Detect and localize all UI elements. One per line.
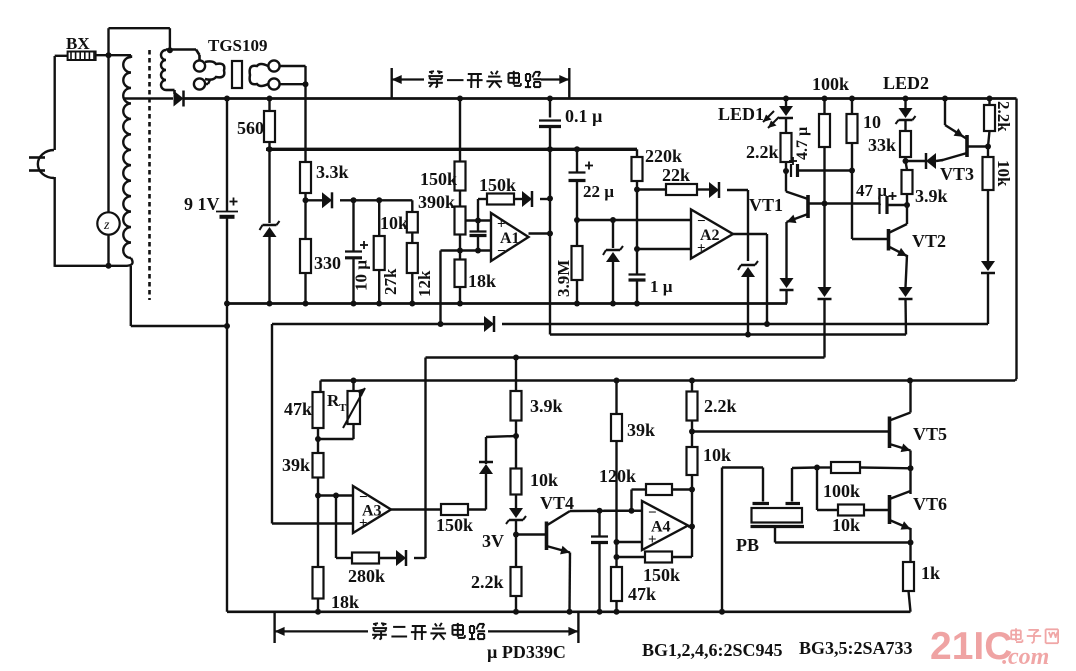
resistor 39k A3 (313, 453, 324, 478)
svg-text:LED2: LED2 (883, 73, 929, 93)
resistor 10 (847, 114, 858, 143)
TGS109 electrode body (250, 60, 280, 89)
node 120k right (689, 487, 695, 493)
wire coil bottom curl (125, 258, 133, 266)
wire overhead top (109, 27, 170, 29)
svg-text:µ PD339C: µ PD339C (487, 642, 566, 662)
capacitor 1u (629, 275, 646, 281)
bracket first switch left arrow (392, 78, 424, 80)
battery 9.1V (216, 212, 238, 217)
wire switch line H4 right (502, 323, 988, 325)
node 560 top (267, 96, 273, 102)
wire transformer return vertical (130, 266, 132, 326)
svg-text:220k: 220k (645, 146, 682, 166)
node VT6 emitter/PB (908, 540, 914, 546)
diode A1 feedback (522, 191, 532, 207)
wire VT1 base to 47u (878, 204, 881, 206)
node 12k bottom (409, 301, 415, 307)
svg-text:150k: 150k (643, 565, 680, 585)
thermistor RT (343, 388, 365, 428)
wire 220k node down (636, 190, 638, 250)
wire A2 minus input (577, 219, 691, 221)
wire 2.2k btm bottom (515, 596, 517, 612)
bracket first switch left tick (391, 68, 393, 99)
diode after 3.3k (322, 192, 332, 208)
wire sensor output down (304, 84, 306, 149)
svg-text:47 µ: 47 µ (856, 181, 887, 200)
wire A3 plus input (272, 522, 353, 524)
node A4 output (689, 524, 695, 530)
bracket second switch left tick (273, 612, 275, 643)
wire 47k A4 bottom (615, 601, 617, 612)
zener diode mid (603, 246, 623, 262)
wire 47u left lead (878, 202, 881, 204)
resistor 150k (455, 162, 466, 191)
wire 10u bottom lead (352, 258, 354, 304)
wire VT4 emitter lead (568, 553, 571, 612)
resistor 2.2k btm (511, 567, 522, 596)
wire 120k vertical (630, 490, 632, 511)
node A4 plus (614, 539, 620, 545)
wire cap A4 bottom lead (598, 543, 600, 612)
transformer core (dashed) (148, 50, 151, 300)
node 150k chain top (457, 96, 463, 102)
svg-text:VT3: VT3 (940, 164, 974, 184)
capacitor 47u (880, 196, 888, 214)
wire 22k left lead (637, 188, 666, 190)
wire LED2 top lead (904, 99, 906, 109)
wire fuse left lead (55, 55, 68, 57)
wire 10k-12k link (411, 233, 413, 244)
resistor 18k (455, 260, 466, 288)
svg-text:A1: A1 (500, 230, 520, 247)
wire 10k fb right (864, 509, 890, 511)
wire A1 minus input (441, 249, 492, 251)
op-amp A4 (642, 501, 688, 550)
svg-text:2.2k: 2.2k (704, 396, 737, 416)
wire diode to corner (727, 189, 748, 191)
node A1 plus / feedback tap (475, 218, 481, 224)
resistor 3.9M (572, 246, 583, 280)
svg-text:390k: 390k (418, 192, 455, 212)
resistor 330 (300, 239, 311, 273)
wire 2.2k to node (785, 162, 787, 171)
node 0.1u on H2 (547, 146, 553, 152)
wire 3.3k top lead (304, 149, 306, 162)
node 33k bottom (903, 158, 909, 164)
resistor 3.9k VT2 (902, 170, 913, 194)
node 22u top (574, 146, 580, 152)
node 10u cap top (351, 197, 357, 203)
wire x616 long (615, 441, 617, 567)
resistor 27k (374, 236, 385, 270)
op-amp A2 (691, 210, 733, 259)
resistor 120k (646, 484, 672, 495)
svg-text:21IC: 21IC (930, 625, 1012, 668)
svg-text:10k: 10k (703, 445, 731, 465)
node PB on bottom rail (719, 609, 725, 615)
wire x748 vertical (747, 190, 749, 261)
node lamp bottom (106, 263, 112, 269)
resistor 10k right (983, 157, 994, 190)
svg-text:2.2k: 2.2k (994, 101, 1013, 132)
diode to VT3 (926, 153, 936, 169)
wire zener column top (268, 149, 270, 223)
node 120k tap (629, 508, 635, 514)
wire PB left pin horiz (722, 466, 763, 468)
node A2 out on H4 (764, 321, 770, 327)
battery plus sign (230, 198, 238, 206)
bracket second switch left arrow (275, 630, 368, 632)
diode under VT2 (899, 287, 913, 299)
svg-text:T: T (339, 402, 347, 414)
wire LED1-2.2k link (785, 118, 787, 133)
wire x692 fb vertical (691, 527, 693, 558)
wire x486 to x516 (486, 436, 516, 437)
wire right border lower (1015, 379, 1017, 381)
capacitor at A1 input (470, 232, 487, 236)
piezo buzzer PB bottom plate (751, 525, 805, 528)
wire VT2 diode to H5 (904, 299, 907, 335)
svg-text:47k: 47k (284, 399, 312, 419)
node zener2 top (610, 217, 616, 223)
wire 100k top lead (823, 99, 825, 115)
wire A4 minus input (604, 510, 642, 512)
node battery bottom (224, 301, 230, 307)
transistor VT2 (889, 224, 908, 256)
wire lamp top lead (107, 55, 109, 212)
resistor 3.3k (300, 162, 311, 193)
resistor 10k (407, 212, 418, 233)
wire rail from winding (123, 97, 173, 99)
wire x748 lower (747, 277, 749, 335)
node VT5 collector top (907, 378, 913, 384)
wire A3 output (391, 508, 441, 510)
wire VT5 emitter lead (909, 451, 911, 469)
resistor 560 (264, 111, 275, 142)
wire sensor electrode vertical (304, 66, 306, 84)
wire plug to fuse (left vertical) (54, 56, 56, 150)
wire 27k bottom lead (378, 270, 380, 304)
node A1 minus / cap (475, 248, 481, 254)
resistor 33k (900, 131, 911, 157)
node 47u right (904, 202, 910, 208)
wire overhead up (107, 28, 109, 55)
diode after 22k (709, 182, 719, 198)
svg-text:22k: 22k (662, 165, 690, 185)
wire 2.2k to node (691, 421, 693, 432)
wire A4 out stub (688, 525, 692, 527)
wire battery top lead (226, 99, 228, 212)
piezo buzzer PB electrodes (753, 502, 801, 505)
label 第一开关电路 (first switch circuit) (428, 71, 541, 88)
plus of 4.7u (789, 157, 797, 165)
wire 33k node to diode (906, 160, 926, 162)
node 18k A3 bottom (315, 609, 321, 615)
node 10u bottom (351, 301, 357, 307)
wire bottom section top rail H7 (321, 379, 1016, 382)
resistor 2.2k A4 (687, 392, 698, 421)
wire 47k top corner (319, 381, 321, 393)
svg-text:10: 10 (863, 112, 881, 132)
wire 120k corner (632, 488, 647, 490)
node x748 on H5 (745, 332, 751, 338)
node feedback tap A3 (333, 493, 339, 499)
svg-text:2.2k: 2.2k (471, 572, 504, 592)
wire 10u top lead (352, 200, 354, 250)
wire sensor rail (second, thick) (266, 148, 637, 151)
node A2 minus (574, 217, 580, 223)
wire A3 fb vertical (335, 496, 337, 559)
svg-text:BG3,5:2SA733: BG3,5:2SA733 (799, 638, 913, 658)
wire zener to node (515, 520, 517, 535)
op-amp A1 (491, 213, 529, 261)
wire VT2 emitter lead (906, 255, 908, 287)
wire 12k bottom lead (411, 273, 413, 304)
wire 3.9M top lead (576, 220, 578, 246)
resistor 18k A3 (313, 567, 324, 599)
piezo buzzer PB crystal (752, 508, 803, 523)
svg-text:VT1: VT1 (749, 195, 783, 215)
svg-text:18k: 18k (468, 271, 496, 291)
svg-text:1 µ: 1 µ (650, 277, 673, 296)
node col x227 / transformer return (224, 323, 230, 329)
wire RT top lead (352, 381, 354, 392)
node cap A4 bottom (597, 609, 603, 615)
fuse BX (68, 52, 96, 61)
wire 330 top lead (304, 200, 306, 239)
node A3 minus (315, 493, 321, 499)
wire 18k A3 bottom (317, 599, 319, 612)
wire 330 bottom lead (304, 273, 306, 304)
resistor 10k fb (838, 505, 864, 516)
resistor 12k (407, 243, 418, 273)
wire fuse to junction (96, 54, 131, 56)
node VT4 base (513, 532, 519, 538)
node 39k A4 top (614, 378, 620, 384)
wire A2 output (733, 233, 767, 235)
diode A3 feedback (396, 550, 406, 566)
wire cap bottom lead (477, 236, 479, 251)
plus of 47u (889, 192, 897, 200)
transformer primary winding (123, 57, 131, 258)
node LED2 top (903, 96, 909, 102)
node 18k bottom (457, 301, 463, 307)
wire A2 plus input (637, 248, 691, 250)
wire 10k right top (987, 147, 989, 158)
svg-text:0.1 µ: 0.1 µ (565, 106, 603, 126)
wire A2 out vertical (766, 234, 768, 324)
node 3.9M bottom (574, 301, 580, 307)
resistor 2.2k right (984, 105, 995, 131)
wire 150k-390k link (459, 191, 461, 207)
node 4.7u right (849, 168, 855, 174)
wire x817 vertical (816, 468, 818, 511)
resistor 22k (666, 184, 697, 195)
svg-text:VT2: VT2 (912, 231, 946, 251)
node zener bottom (267, 301, 273, 307)
wire x486 vertical lower (485, 474, 487, 510)
capacitor at A4 (591, 537, 608, 543)
wire VT4 base wire (516, 533, 547, 535)
TGS109 heater body (166, 50, 224, 95)
svg-text:9 1V: 9 1V (184, 194, 220, 214)
wire PB right pin up (791, 468, 793, 502)
svg-text:280k: 280k (348, 566, 385, 586)
wire 10k/12k top lead (411, 200, 413, 212)
node LED1 top (783, 96, 789, 102)
wire x486 vertical upper (485, 437, 487, 464)
wire 4.7u to x852 (798, 169, 853, 171)
wire VT1 emitter lead (785, 222, 787, 278)
wire 10 bottom lead (851, 143, 853, 171)
svg-text:150k: 150k (479, 175, 516, 195)
svg-text:27k: 27k (381, 268, 400, 295)
wire 27k top lead (378, 200, 380, 236)
wire 3.9k btm bottom lead (515, 421, 517, 437)
wire 3.3k bottom lead (304, 193, 306, 200)
wire 18k A3 top (317, 496, 319, 568)
wire feedback corner (478, 198, 487, 200)
wire feedback vertical upper (477, 199, 479, 221)
svg-text:TGS109: TGS109 (208, 36, 268, 55)
wire x516 to 10k (515, 436, 517, 469)
wire sensor top electrode (280, 65, 306, 67)
node VT5 drive (689, 429, 695, 435)
resistor 280k (352, 553, 379, 564)
wire coil top lead (130, 55, 132, 58)
wire PB bottom to VT6 (775, 541, 911, 543)
LED1 emission arrows (763, 111, 779, 128)
wire VT3 emitter lead (944, 99, 946, 126)
wire PB left vertical (721, 468, 723, 612)
node 27k bottom (376, 301, 382, 307)
node 100k top (822, 96, 828, 102)
wire 560 top lead (268, 99, 270, 112)
svg-text:10k: 10k (530, 470, 558, 490)
svg-text:12k: 12k (415, 270, 434, 297)
resistor 100k (819, 114, 830, 147)
svg-text:VT5: VT5 (913, 424, 947, 444)
svg-text:BG1,2,4,6:2SC945: BG1,2,4,6:2SC945 (642, 640, 783, 660)
wire PB right pin horiz (792, 466, 817, 469)
wire 150k A3 to corner (468, 508, 486, 510)
wire zener2 bottom lead (612, 262, 614, 304)
transistor VT3 (941, 125, 967, 161)
wire emitter chain (909, 468, 911, 494)
resistor 2.2k VT1 (781, 133, 792, 162)
wire 2.2k A4 top lead (691, 381, 693, 392)
wire VT6 emitter lead (909, 528, 911, 543)
svg-text:150k: 150k (420, 169, 457, 189)
wire 10k A4 top (691, 432, 693, 448)
node 0.1u top (547, 96, 553, 102)
node VT3 base (985, 144, 991, 150)
wire 33k node down (906, 161, 908, 170)
capacitor 4.7u (791, 164, 798, 177)
wire VT1 base (808, 202, 880, 204)
wire lamp bottom lead (107, 235, 109, 266)
wire 1k top lead (909, 543, 911, 563)
bracket first switch right arrow (541, 78, 569, 80)
wire 3.9M bottom lead (576, 280, 578, 304)
wire line H5 (550, 333, 906, 335)
wire RT bottom lead (352, 424, 354, 439)
diode right chain (981, 261, 995, 273)
wire node row y200 (340, 199, 412, 201)
logo 电子网 (1011, 628, 1058, 643)
node 2.2k A4 top (689, 378, 695, 384)
svg-text:A3: A3 (362, 503, 382, 520)
resistor 47k A4 (611, 567, 622, 601)
node 3.9k chain on H6 (513, 355, 519, 361)
node 47k/RT/39k (315, 436, 321, 442)
transistor VT1 (786, 192, 808, 224)
wire battery bottom lead (226, 217, 228, 304)
svg-text:3.9k: 3.9k (530, 396, 563, 416)
wire 39k A4 top lead (615, 381, 617, 415)
wire transformer return horizontal (131, 325, 227, 327)
node 2.2k btm bottom (513, 609, 519, 615)
svg-text:39k: 39k (282, 455, 310, 475)
resistor 150k A4 (645, 552, 672, 563)
resistor 220k (632, 157, 643, 181)
wire diode feed (306, 199, 323, 201)
wire 1u bottom lead (636, 280, 638, 304)
wire PB bottom down (774, 527, 776, 543)
node x440 on H4 (438, 321, 444, 327)
node 100k left (814, 465, 820, 471)
wire +V rail (top) (184, 97, 1017, 100)
node mains junction (106, 52, 112, 58)
TGS109 element (232, 61, 242, 88)
wire 2.2k btm top (515, 535, 517, 568)
wire A3 fb horizontal (336, 557, 352, 559)
wire PB left pin up (762, 468, 764, 502)
svg-text:39k: 39k (627, 420, 655, 440)
wire right chain to H4 (987, 273, 989, 324)
capacitor 0.1u (539, 121, 561, 127)
svg-text:10k: 10k (994, 160, 1013, 187)
svg-text:22 µ: 22 µ (583, 182, 614, 201)
resistor 3.9k btm (511, 391, 522, 421)
node RT top (351, 378, 357, 384)
wire 1k bottom lead (909, 591, 911, 612)
capacitor 22u (569, 173, 586, 181)
svg-text:4.7 µ: 4.7 µ (794, 127, 811, 160)
node A1 out on x550 (547, 231, 553, 237)
svg-text:120k: 120k (599, 466, 636, 486)
wire cap top lead (477, 221, 479, 231)
svg-text:18k: 18k (331, 592, 359, 612)
wire col x227 down (226, 326, 228, 612)
wire 10k right bottom (987, 190, 989, 261)
node sensor output (303, 81, 309, 87)
wire x440 vertical (439, 251, 441, 325)
node 3.3k bottom (303, 197, 309, 203)
svg-text:3V: 3V (482, 531, 504, 551)
node zener2 bottom (610, 301, 616, 307)
wire 10 top lead (851, 99, 853, 115)
node VT4 emitter bottom (567, 609, 573, 615)
node VT1 collector top (783, 168, 789, 174)
svg-text:2.2k: 2.2k (746, 142, 779, 162)
wire cap A4 top lead (598, 511, 600, 536)
wire 150k top lead (459, 99, 461, 162)
wire 220k top lead (636, 149, 638, 157)
svg-text:100k: 100k (823, 481, 860, 501)
op-amp A3 (353, 486, 391, 533)
